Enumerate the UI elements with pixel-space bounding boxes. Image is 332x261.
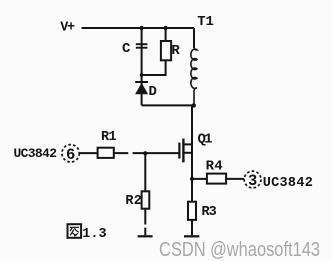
wire top rail V+ to T1 xyxy=(82,27,195,29)
capacitor C plates xyxy=(136,44,148,48)
diode D xyxy=(135,82,148,94)
drain stub xyxy=(183,143,192,145)
svg-text:D: D xyxy=(149,84,157,100)
transformer T1 primary winding xyxy=(191,48,197,104)
node junction dot source / R4 / R3 xyxy=(190,177,194,181)
wire R2 to terminal (with gap) xyxy=(144,209,146,236)
wire R1 to gate (with gap) xyxy=(114,152,180,154)
resistor R3 xyxy=(188,202,196,220)
node junction dot R bottom to cap branch xyxy=(140,73,144,77)
svg-text:UC3842: UC3842 xyxy=(14,146,58,161)
resistor R4 xyxy=(207,174,226,184)
node junction dot rail/capacitor xyxy=(140,26,144,30)
wire junction to R4 xyxy=(192,178,207,180)
svg-text:R1: R1 xyxy=(101,130,117,145)
node junction dot coil bottom / drain xyxy=(192,103,196,107)
terminal bar under R3 xyxy=(184,235,199,237)
wire winding bottom through junction down to MOSFET area and R3 xyxy=(191,105,193,202)
svg-text:6: 6 xyxy=(66,146,75,164)
svg-text:3: 3 xyxy=(248,172,257,190)
svg-text:C: C xyxy=(122,41,131,57)
svg-text:CSDN @whaosoft143: CSDN @whaosoft143 xyxy=(159,238,320,261)
channel bar xyxy=(182,139,184,163)
svg-text:V+: V+ xyxy=(60,21,75,36)
pin 3 circle xyxy=(244,171,261,190)
node junction dot gate wire / R2 xyxy=(143,151,147,155)
source stub xyxy=(183,152,192,154)
pin 6 circle xyxy=(62,145,79,164)
terminal bar under R2 xyxy=(138,235,153,237)
resistor R1 xyxy=(98,148,114,158)
svg-text:T1: T1 xyxy=(197,14,214,30)
wire pin6 to R1 xyxy=(80,152,98,154)
resistor R2 xyxy=(142,191,150,208)
node junction dot rail/resistor R xyxy=(164,26,168,30)
wire junction to R2 xyxy=(144,153,146,191)
figure caption tofu glyph box xyxy=(68,224,82,238)
svg-text:R3: R3 xyxy=(202,205,217,220)
svg-text:R4: R4 xyxy=(206,159,223,175)
svg-text:R2: R2 xyxy=(125,194,141,209)
wire R3 to terminal xyxy=(191,220,193,235)
svg-text:R: R xyxy=(171,43,180,59)
wire rail to transformer winding xyxy=(193,28,195,48)
wire R4 to pin 3 xyxy=(226,178,244,180)
gate bar xyxy=(178,143,180,159)
wire diode bottom to transformer bottom xyxy=(142,104,194,106)
svg-text:1.3: 1.3 xyxy=(82,227,106,242)
svg-text:Q1: Q1 xyxy=(198,131,213,147)
svg-text:UC3842: UC3842 xyxy=(263,176,313,191)
wire capacitor-diode branch vertical xyxy=(141,28,143,105)
resistor R xyxy=(142,28,171,75)
transistor Q1 MOSFET xyxy=(179,139,192,163)
